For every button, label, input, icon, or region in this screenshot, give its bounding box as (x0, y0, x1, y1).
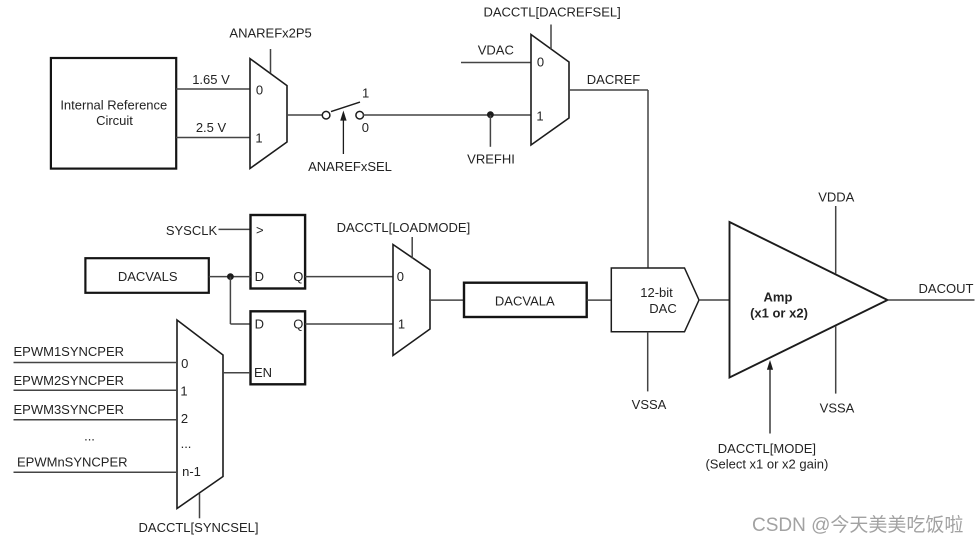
svg-text:SYSCLK: SYSCLK (166, 223, 218, 238)
mux: EPWM SYNCSEL select (177, 320, 223, 509)
svg-text:1: 1 (398, 317, 405, 332)
svg-text:ANAREFxSEL: ANAREFxSEL (308, 159, 392, 174)
svg-text:Q: Q (293, 317, 303, 332)
svg-text:VREFHI: VREFHI (467, 152, 515, 167)
svg-text:D: D (255, 269, 264, 284)
mux: LOADMODE select (393, 245, 430, 356)
svg-text:(x1 or x2): (x1 or x2) (750, 305, 808, 320)
wire: EPWMnSYNCPER input (14, 455, 178, 473)
svg-text:DAC: DAC (649, 301, 676, 316)
svg-text:0: 0 (362, 120, 369, 135)
svg-text:>: > (256, 223, 264, 238)
svg-text:EPWM1SYNCPER: EPWM1SYNCPER (14, 344, 125, 359)
wire: Q1 to loadmode mux input 0 (305, 276, 393, 278)
wire: DACCTL[SYNCSEL] control (139, 494, 259, 536)
svg-text:...: ... (181, 436, 192, 451)
svg-text:DACOUT: DACOUT (919, 281, 974, 296)
wire: VDDA supply (818, 190, 854, 274)
op-amp: output buffer Amp (730, 222, 888, 378)
svg-text:Amp: Amp (764, 289, 793, 304)
svg-text:Circuit: Circuit (96, 113, 133, 128)
svg-text:n-1: n-1 (182, 464, 201, 479)
node: VREFHI junction (467, 111, 515, 166)
svg-text:VDAC: VDAC (478, 43, 514, 58)
svg-text:DACVALA: DACVALA (495, 293, 555, 308)
wire: EPWM1SYNCPER input (14, 344, 178, 363)
flip-flop: active shadow register (251, 215, 306, 289)
svg-text:VSSA: VSSA (820, 401, 855, 416)
svg-text:...: ... (84, 429, 95, 444)
wire: EPWM2SYNCPER input (14, 373, 178, 390)
mux: ANAREFx2P5 reference select (250, 59, 287, 169)
svg-text:1: 1 (180, 384, 187, 399)
mux: DACREF select (531, 35, 569, 146)
wire: DACVALA to DAC (587, 299, 612, 301)
svg-text:EN: EN (254, 365, 272, 380)
wire: loadmode mux output (429, 299, 464, 301)
svg-text:0: 0 (537, 54, 544, 69)
svg-text:(Select x1 or x2 gain): (Select x1 or x2 gain) (705, 456, 828, 471)
wire: 2.5 V output (176, 120, 250, 138)
wire: DAC to Amp (699, 299, 730, 301)
block: Internal Reference Circuit (51, 58, 176, 169)
svg-text:DACVALS: DACVALS (118, 269, 178, 284)
svg-text:1: 1 (362, 86, 369, 101)
svg-text:EPWMnSYNCPER: EPWMnSYNCPER (17, 455, 128, 470)
wire: syncsel mux output to EN (223, 372, 250, 374)
svg-text:DACCTL[LOADMODE]: DACCTL[LOADMODE] (337, 220, 471, 235)
wire: VDAC input (461, 43, 531, 63)
svg-text:DACCTL[DACREFSEL]: DACCTL[DACREFSEL] (483, 4, 620, 19)
svg-text:VSSA: VSSA (632, 397, 667, 412)
wire: ANAREFx2P5 control (229, 26, 311, 74)
wire: mux1 output to switch (287, 114, 323, 116)
block: DACVALA register (464, 283, 587, 317)
svg-text:D: D (255, 317, 264, 332)
svg-text:DACREF: DACREF (587, 72, 641, 87)
wire: switch to DACREF mux input 1 (363, 114, 531, 116)
wire: DACCTL[LOADMODE] control (337, 220, 471, 259)
svg-text:2: 2 (181, 411, 188, 426)
wire: VSSA below DAC (632, 332, 667, 412)
svg-text:1: 1 (536, 109, 543, 124)
wire: DACCTL[DACREFSEL] control (483, 4, 620, 49)
svg-text:2.5 V: 2.5 V (196, 120, 227, 135)
wire: DACREF net (569, 72, 648, 268)
wire: SYSCLK input (166, 223, 251, 238)
svg-text:1.65 V: 1.65 V (192, 72, 230, 87)
wire: DACOUT output (888, 281, 975, 300)
wire: VSSA below Amp (820, 326, 855, 416)
flip-flop: enabled shadow register (251, 311, 306, 384)
svg-text:0: 0 (181, 356, 188, 371)
wire: EPWM3SYNCPER input (14, 402, 178, 420)
wire: DACCTL[MODE] control arrow (705, 360, 828, 471)
svg-text:VDDA: VDDA (818, 190, 854, 205)
svg-text:ANAREFx2P5: ANAREFx2P5 (229, 26, 311, 41)
switch: ANAREFxSEL (322, 86, 369, 136)
svg-text:EPWM3SYNCPER: EPWM3SYNCPER (14, 402, 125, 417)
svg-text:DACCTL[SYNCSEL]: DACCTL[SYNCSEL] (139, 520, 259, 535)
wire: 1.65 V output (176, 72, 250, 89)
svg-text:CSDN @今天美美吃饭啦: CSDN @今天美美吃饭啦 (752, 514, 963, 536)
block: 12-bit DAC (611, 268, 699, 332)
wire: DACVALS to D input (209, 276, 251, 278)
svg-text:0: 0 (397, 269, 404, 284)
node: DACVALS branch junction (227, 273, 251, 324)
svg-text:0: 0 (256, 82, 263, 97)
svg-text:Q: Q (293, 269, 303, 284)
svg-text:DACCTL[MODE]: DACCTL[MODE] (718, 441, 816, 456)
wire: Q2 to loadmode mux input 1 (305, 323, 393, 325)
svg-text:12-bit: 12-bit (640, 285, 673, 300)
svg-text:1: 1 (255, 131, 262, 146)
block: DACVALS register (85, 258, 208, 293)
svg-text:EPWM2SYNCPER: EPWM2SYNCPER (14, 373, 125, 388)
wire: ANAREFxSEL control arrow (308, 111, 392, 175)
svg-text:Internal Reference: Internal Reference (60, 98, 167, 113)
